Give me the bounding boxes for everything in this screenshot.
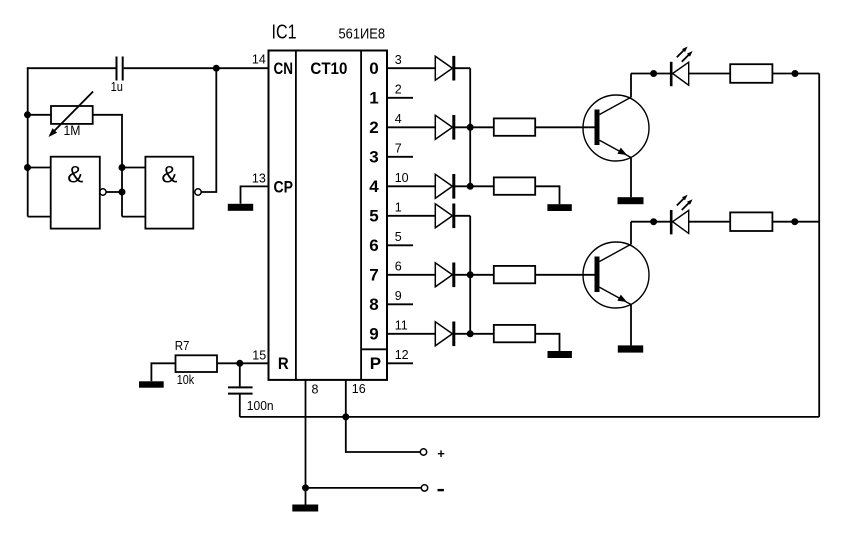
wire middle vertical to gate U2 input a — [122, 167, 145, 169]
label minus — [438, 489, 444, 491]
wire output 0 to diode D1 — [387, 67, 435, 69]
ground CP — [228, 204, 253, 211]
diode D1 — [435, 56, 470, 81]
svg-text:561ИЕ8: 561ИЕ8 — [339, 27, 386, 43]
variable resistor 1M arrow — [49, 92, 94, 138]
wire rail to gate U1 input a — [28, 167, 51, 169]
node junction R pin — [236, 360, 243, 367]
wire to base resistor R3 — [470, 274, 494, 276]
diode D5 — [435, 263, 470, 288]
ground R7 — [139, 381, 164, 387]
node junction group2 row7 — [467, 271, 474, 278]
node junction left rail at gate input — [24, 164, 31, 171]
resistor R4 body — [494, 325, 535, 342]
wire pin 16 down — [346, 380, 421, 452]
ground Q2 emitter — [618, 345, 643, 352]
wire Q2 emitter to ground — [630, 305, 632, 346]
wire minus row — [306, 487, 422, 489]
svg-text:6: 6 — [395, 260, 402, 274]
wire stub output P — [387, 362, 413, 364]
wire R3 to transistor Q2 base — [535, 274, 595, 276]
ground Q1 emitter — [618, 197, 644, 204]
transistor Q1 — [583, 95, 649, 161]
wire to base resistor R1 — [470, 126, 494, 128]
node junction group2 row9 — [467, 330, 474, 337]
wire left rail — [27, 67, 29, 216]
svg-text:8: 8 — [369, 295, 378, 314]
svg-text:5: 5 — [395, 230, 402, 244]
wire R6 to right rail — [772, 221, 819, 223]
svg-text:6: 6 — [369, 236, 378, 255]
wire output 5 to diode D4 — [387, 215, 435, 217]
svg-text:P: P — [370, 354, 381, 373]
IC1 inner divider right — [360, 51, 362, 380]
svg-text:3: 3 — [369, 148, 378, 167]
svg-text:10: 10 — [395, 171, 409, 185]
svg-text:2: 2 — [395, 83, 402, 97]
LED HL1 — [671, 47, 692, 87]
svg-text:R7: R7 — [175, 339, 190, 353]
terminal plus circle — [420, 449, 426, 455]
svg-text:15: 15 — [252, 349, 266, 363]
node junction left rail at 1M — [24, 111, 31, 118]
wire capacitor C2 to bottom rail — [239, 395, 241, 417]
svg-text:10k: 10k — [177, 372, 195, 387]
wire R 1M to middle vertical — [93, 115, 122, 217]
svg-text:100n: 100n — [247, 398, 274, 413]
wire gate U2 output to top node — [201, 68, 216, 192]
svg-text:2: 2 — [369, 118, 378, 137]
svg-text:1: 1 — [395, 201, 402, 215]
IC1 inner divider left — [295, 51, 297, 380]
svg-text:4: 4 — [395, 112, 402, 126]
resistor R7 body — [176, 355, 218, 372]
diode D4 — [435, 204, 470, 229]
node junction group1 row4 — [467, 183, 474, 190]
resistor R2 body — [494, 177, 535, 194]
wire group1 collect vertical — [469, 68, 471, 186]
svg-text:9: 9 — [369, 325, 378, 344]
wire pin 8 down — [305, 380, 307, 505]
wire LED1 to resistor R5 — [689, 73, 731, 75]
wire output 4 to diode D3 — [387, 185, 435, 187]
ground R4 — [548, 351, 572, 358]
variable resistor 1M body — [51, 106, 93, 124]
wire R2 to ground — [535, 186, 559, 204]
wire rail to gate U1 input b — [28, 216, 51, 218]
svg-text:11: 11 — [395, 319, 408, 333]
gate U1 output bubble — [100, 189, 106, 195]
wire output 9 to diode D6 — [387, 333, 435, 335]
diode D3 — [435, 174, 470, 199]
svg-text:16: 16 — [352, 382, 366, 396]
wire rail to R 1M — [28, 114, 51, 116]
svg-text:1u: 1u — [111, 80, 123, 94]
svg-text:CT10: CT10 — [310, 59, 347, 78]
svg-text:5: 5 — [369, 207, 378, 226]
wire top from left rail to capacitor C1 — [27, 67, 116, 69]
svg-text:IC1: IC1 — [272, 22, 297, 44]
wire output 2 to diode D2 — [387, 126, 435, 128]
svg-text:3: 3 — [395, 53, 402, 67]
resistor R3 body — [494, 266, 535, 283]
gate U2 output bubble — [195, 189, 201, 195]
wire to resistor R2 — [470, 185, 494, 187]
wire capacitor to IC pin 14 — [124, 67, 269, 69]
ground main — [292, 505, 318, 512]
wire stub output 3 — [387, 156, 413, 158]
wire to resistor R4 — [470, 333, 494, 335]
wire gate U1 output to middle vertical — [106, 191, 122, 193]
node junction middle vertical at gate U1 output — [119, 189, 126, 196]
op IC1 counter box — [269, 51, 388, 380]
svg-text:&: & — [161, 161, 177, 188]
wire R1 to transistor Q1 base — [535, 126, 595, 128]
wire stub output 6 — [387, 244, 413, 246]
node junction middle vertical at gate U2 input a — [119, 164, 126, 171]
wire Q1 emitter to ground — [630, 158, 632, 198]
wire R7 left to ground — [151, 363, 175, 381]
diode D6 — [435, 322, 470, 347]
wire Q1 collector up — [630, 74, 632, 98]
capacitor 1u plates — [117, 57, 123, 81]
svg-text:1: 1 — [369, 89, 378, 108]
svg-text:&: & — [67, 161, 83, 188]
capacitor 100n plates — [228, 387, 253, 393]
svg-text:CN: CN — [274, 59, 294, 78]
svg-text:7: 7 — [395, 142, 402, 156]
svg-text:4: 4 — [369, 177, 379, 196]
transistor Q2 — [583, 242, 649, 308]
wire Q2 collector up — [630, 222, 632, 245]
wire Q2 collector to LED2 — [631, 221, 670, 223]
diode D2 — [435, 115, 470, 140]
wire CP pin to ground — [241, 186, 269, 203]
resistor R6 body — [730, 212, 772, 231]
svg-text:8: 8 — [312, 382, 319, 396]
node junction pin16 at bottom rail — [342, 413, 349, 420]
svg-text:13: 13 — [252, 172, 266, 186]
gate U1 NAND body — [51, 157, 100, 229]
node junction group1 row2 — [467, 124, 474, 131]
resistor R5 body — [730, 64, 772, 83]
svg-text:CP: CP — [274, 177, 294, 196]
svg-text:7: 7 — [369, 266, 378, 285]
gate U2 NAND body — [145, 157, 193, 229]
ground R2 — [547, 204, 571, 211]
svg-text:0: 0 — [369, 59, 378, 78]
wire output 7 to diode D5 — [387, 274, 435, 276]
node junction R5 rail — [792, 70, 799, 77]
svg-text:9: 9 — [395, 289, 402, 303]
wire node to capacitor C2 — [239, 363, 241, 386]
wire stub output 1 — [387, 97, 413, 99]
svg-text:14: 14 — [252, 52, 266, 66]
resistor R1 body — [494, 118, 535, 135]
wire middle vertical to gate U2 input b — [122, 216, 145, 218]
wire R7 to IC pin 15 — [217, 362, 269, 364]
node junction LED2 anode — [650, 218, 657, 225]
node junction minus wire — [302, 484, 309, 491]
wire Q1 collector to LED1 — [631, 73, 670, 75]
wire stub output 8 — [387, 303, 413, 305]
svg-text:12: 12 — [395, 348, 409, 362]
IC1 P cell divider — [361, 348, 387, 350]
node junction top — [213, 65, 220, 72]
wire R5 to right rail — [772, 73, 819, 75]
wire bottom rail — [240, 416, 819, 418]
wire group2 collect vertical — [469, 216, 471, 334]
node junction R6 rail — [791, 218, 798, 225]
terminal minus circle — [421, 485, 427, 491]
wire LED2 to resistor R6 — [689, 221, 731, 223]
svg-text:1M: 1M — [64, 123, 81, 138]
node junction LED1 anode — [650, 70, 657, 77]
svg-text:+: + — [437, 446, 445, 461]
svg-text:R: R — [278, 354, 289, 373]
LED HL2 — [671, 195, 692, 235]
wire right rail — [818, 74, 820, 417]
wire R4 to ground — [535, 334, 559, 351]
